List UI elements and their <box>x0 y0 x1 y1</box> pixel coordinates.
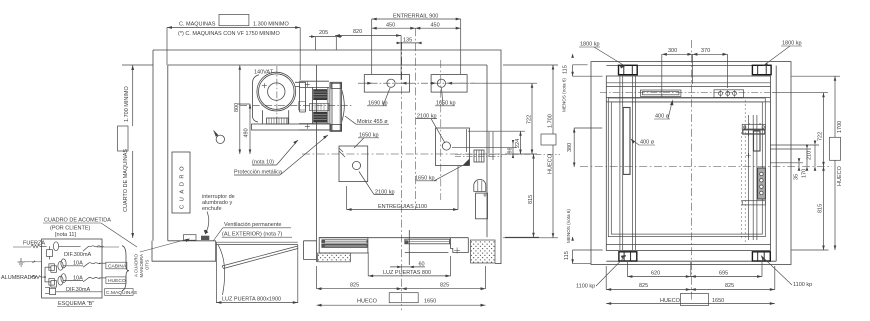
coil hatched blocks <box>314 90 327 123</box>
dim 815 <box>505 154 539 237</box>
svg-text:825: 825 <box>639 283 648 289</box>
base hatch block <box>267 118 289 124</box>
svg-text:825: 825 <box>440 282 449 288</box>
svg-text:ALUMBRADO: ALUMBRADO <box>1 275 37 281</box>
svg-text:CUARTO DE MAQUINAS: CUARTO DE MAQUINAS <box>123 149 129 212</box>
svg-text:820: 820 <box>353 29 362 35</box>
bottom dim 620 695 <box>627 262 762 277</box>
svg-text:HUECO: HUECO <box>548 153 554 174</box>
svg-text:ENTREGUIAS 1100: ENTREGUIAS 1100 <box>378 204 427 210</box>
svg-text:C.MAQUINAS: C.MAQUINAS <box>106 290 138 296</box>
svg-text:224: 224 <box>515 139 521 148</box>
svg-text:MENOS (nota 6): MENOS (nota 6) <box>562 78 567 112</box>
right wall liner line <box>775 66 777 262</box>
junction split <box>44 276 46 278</box>
shaft left edge <box>316 65 318 237</box>
dim LUZ PUERTA 800x1900 <box>216 302 297 304</box>
motor frame left <box>253 75 260 122</box>
shaft inner wall <box>606 76 770 250</box>
svg-text:620: 620 <box>651 270 660 276</box>
svg-text:1800 kp: 1800 kp <box>580 42 600 48</box>
hook symbol small circle <box>216 135 224 143</box>
pedestal <box>263 110 289 124</box>
left dim: 1.700 MINIMO <box>122 65 153 238</box>
svg-text:1650: 1650 <box>424 299 436 305</box>
bottom floor line left segment <box>168 240 216 242</box>
svg-text:MANIOBRA: MANIOBRA <box>139 254 144 277</box>
svg-text:1.700 MINIMO: 1.700 MINIMO <box>124 86 130 122</box>
svg-text:C. MAQUINAS: C. MAQUINAS <box>179 22 216 28</box>
svg-text:10A: 10A <box>73 275 83 281</box>
dim LUZ PUERTAS 800 <box>368 252 450 276</box>
counterweight assembly right <box>742 115 765 240</box>
svg-text:ESQUEMA "B": ESQUEMA "B" <box>58 301 94 307</box>
door sill assembly bottom of shaft <box>319 230 468 265</box>
mid plate A <box>339 146 368 182</box>
bottom wall liner line <box>606 260 776 262</box>
mid shaft hatch <box>309 82 344 131</box>
bottom dim 825 825 <box>606 266 775 290</box>
svg-text:205: 205 <box>319 30 328 36</box>
hatched door-right small block <box>405 240 409 243</box>
tag box on left dim <box>118 126 129 151</box>
rail plate top-right <box>431 75 467 93</box>
main centerlines <box>302 153 500 155</box>
svg-text:115: 115 <box>564 251 570 260</box>
svg-text:1800 kp: 1800 kp <box>782 41 802 47</box>
base band <box>252 124 331 130</box>
svg-text:1.700: 1.700 <box>548 114 554 128</box>
guide rail columns left/right <box>620 76 636 250</box>
svg-text:115: 115 <box>563 65 569 74</box>
svg-text:1.300 MINIMO: 1.300 MINIMO <box>253 22 289 28</box>
svg-text:HUECO: HUECO <box>660 298 681 304</box>
drive sheave edge arc <box>342 90 345 123</box>
light switch boxes on wall <box>184 235 197 241</box>
svg-text:(POR CLIENTE): (POR CLIENTE) <box>50 226 91 232</box>
svg-text:(nota 10): (nota 10) <box>252 160 274 166</box>
link plate right with circles <box>714 90 744 98</box>
svg-text:DIF.30mA: DIF.30mA <box>66 287 90 293</box>
svg-text:(*) C. MAQUINAS CON VF 175: (*) C. MAQUINAS CON VF 1750 MINIMO <box>178 31 280 37</box>
svg-text:722: 722 <box>818 132 824 141</box>
svg-text:HUECO: HUECO <box>108 278 126 284</box>
svg-text:1100 kp: 1100 kp <box>793 282 812 288</box>
dim 50 <box>390 266 425 268</box>
counterweight hatched column <box>758 168 766 199</box>
flange plates <box>330 82 342 131</box>
svg-text:1650: 1650 <box>712 298 724 304</box>
RIGHT_PLAN <box>591 62 791 265</box>
svg-text:CABINA: CABINA <box>108 263 127 269</box>
top dim: 205 <box>309 37 342 50</box>
dim 722 <box>470 83 537 154</box>
left dim 380 <box>574 128 602 167</box>
svg-text:60: 60 <box>419 261 425 267</box>
dim 800 vertical <box>239 65 241 154</box>
right dims 35 170 210 <box>770 145 819 166</box>
svg-text:722: 722 <box>527 115 533 124</box>
crosshead beam <box>606 83 770 102</box>
bottom dim HUECO 1650 <box>606 303 775 305</box>
ground symbol <box>18 258 43 266</box>
dim HUECO 1650 <box>317 304 486 306</box>
schematic main box <box>42 239 102 298</box>
top dim: 135 <box>397 42 422 44</box>
svg-text:450: 450 <box>431 23 440 29</box>
left dims 115 MENOS nota6 bottom <box>573 250 603 264</box>
svg-text:210: 210 <box>807 151 813 160</box>
svg-text:35: 35 <box>794 174 800 180</box>
dim ENTREGUIAS 1100 <box>347 166 458 210</box>
svg-text:FUERZA: FUERZA <box>23 241 45 247</box>
svg-text:HUECO: HUECO <box>837 165 843 186</box>
svg-text:815: 815 <box>818 204 824 213</box>
centerline through plates <box>358 82 475 84</box>
rail plate top-left <box>364 75 409 93</box>
wall block right of landing door <box>304 237 317 262</box>
top dim: C.MAQUINAS 1300 MINIMO <box>167 14 300 80</box>
top dim: 450 450 <box>372 27 461 30</box>
gearbox frame <box>299 81 329 130</box>
corner rail brackets (bold) <box>619 65 772 261</box>
cabinet CUADRO <box>172 152 190 213</box>
dim 300 370 top <box>662 54 728 97</box>
svg-text:Protección metálica: Protección metálica <box>234 170 283 176</box>
machine room outer wall <box>153 50 501 264</box>
svg-text:450: 450 <box>386 23 395 29</box>
svg-text:OTIS: OTIS <box>145 260 150 270</box>
svg-text:825: 825 <box>725 283 734 289</box>
svg-text:135: 135 <box>403 37 412 43</box>
top dim: 820 <box>335 36 401 81</box>
top dim: ENTRERRAIL 900 <box>372 18 461 74</box>
svg-text:[nota 11]: [nota 11] <box>55 232 76 238</box>
sheave circles <box>257 72 296 111</box>
svg-text:1100 kp: 1100 kp <box>576 284 595 290</box>
wall band below machine room left <box>152 241 216 261</box>
right dim 1700 HUECO <box>792 76 841 250</box>
motor machine 140VAT <box>252 72 331 130</box>
svg-text:695: 695 <box>719 270 728 276</box>
breaker row1 DIF300 <box>42 242 119 260</box>
svg-text:HUECO: HUECO <box>357 299 378 305</box>
right dim 815 <box>792 166 829 250</box>
dim 98 <box>452 140 517 158</box>
sill hatch blocks <box>318 240 501 264</box>
brace to A CUADRO MANIOBRA <box>122 246 129 291</box>
breaker row4 DIF30 C.MAQUINAS <box>45 287 102 294</box>
svg-text:DIF.300mA: DIF.300mA <box>64 252 92 258</box>
mid plate B <box>436 128 494 166</box>
svg-text:98: 98 <box>508 147 514 153</box>
shaft outer wall <box>591 62 791 265</box>
svg-text:CUADRO: CUADRO <box>180 163 186 209</box>
machine room inner wall <box>168 65 487 241</box>
svg-text:170: 170 <box>802 169 808 178</box>
svg-text:ENTRERRAIL 900: ENTRERRAIL 900 <box>393 14 438 20</box>
svg-text:LUZ PUERTAS 800: LUZ PUERTAS 800 <box>383 270 431 276</box>
svg-text:300: 300 <box>668 48 677 54</box>
dim 1.700 HUECO right side <box>503 65 558 238</box>
dim 490 vertical <box>238 104 250 154</box>
svg-text:400 ø: 400 ø <box>655 114 670 120</box>
svg-text:370: 370 <box>701 48 710 54</box>
beam centerline right plan <box>600 92 775 94</box>
centerlines right plan <box>580 165 832 167</box>
dim 825 825 <box>317 266 486 289</box>
shaft wall top line <box>606 65 770 67</box>
slotted link plate left <box>640 90 681 96</box>
governor dome <box>474 150 488 219</box>
left dims 115 MENOS nota6 top <box>573 65 603 76</box>
svg-text:A CUADRO: A CUADRO <box>134 253 139 277</box>
landing door machine room (open leaf) <box>216 242 297 303</box>
car rect <box>608 98 765 237</box>
svg-text:1700: 1700 <box>837 121 843 133</box>
LEFT_PLAN <box>152 50 501 264</box>
svg-text:815: 815 <box>528 195 534 204</box>
svg-text:enchufe: enchufe <box>202 206 222 212</box>
svg-text:10A: 10A <box>73 261 83 267</box>
svg-text:(AL EXTERIOR) (nota 7): (AL EXTERIOR) (nota 7) <box>222 232 282 238</box>
svg-text:400 ø: 400 ø <box>640 140 655 146</box>
rope centerlines to governor <box>455 154 560 156</box>
svg-text:490: 490 <box>244 128 250 137</box>
svg-text:Ventilación permanente: Ventilación permanente <box>224 222 281 228</box>
svg-text:LUZ PUERTA 800x1900: LUZ PUERTA 800x1900 <box>222 296 281 302</box>
dim 224 <box>468 131 525 154</box>
right dim 722 <box>772 93 828 167</box>
breaker row3 10A HUECO <box>45 274 106 287</box>
breaker row2 10A CABINA <box>45 259 106 272</box>
svg-text:CUADRO DE ACOMETIDA: CUADRO DE ACOMETIDA <box>44 218 111 224</box>
svg-text:380: 380 <box>567 143 573 152</box>
svg-text:825: 825 <box>350 282 359 288</box>
motor shaft centerline <box>240 104 352 106</box>
bottom beam <box>606 244 770 246</box>
svg-text:140VAT: 140VAT <box>254 70 274 76</box>
svg-text:MENOS (nota 6): MENOS (nota 6) <box>566 209 571 243</box>
bell housing <box>295 82 306 112</box>
